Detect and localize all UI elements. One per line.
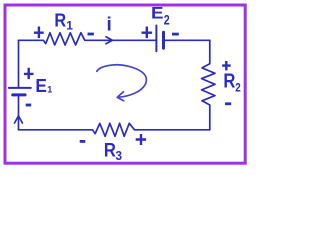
svg-text:1: 1 <box>66 19 73 33</box>
svg-text:E: E <box>151 3 164 22</box>
svg-text:i: i <box>107 15 112 36</box>
svg-text:2: 2 <box>164 12 170 28</box>
svg-text:R: R <box>223 71 235 93</box>
svg-text:3: 3 <box>116 149 123 163</box>
svg-text:2: 2 <box>235 82 241 94</box>
svg-text:R: R <box>54 9 66 30</box>
svg-text:1: 1 <box>47 85 52 95</box>
svg-text:E: E <box>35 75 47 96</box>
svg-text:R: R <box>104 140 116 162</box>
